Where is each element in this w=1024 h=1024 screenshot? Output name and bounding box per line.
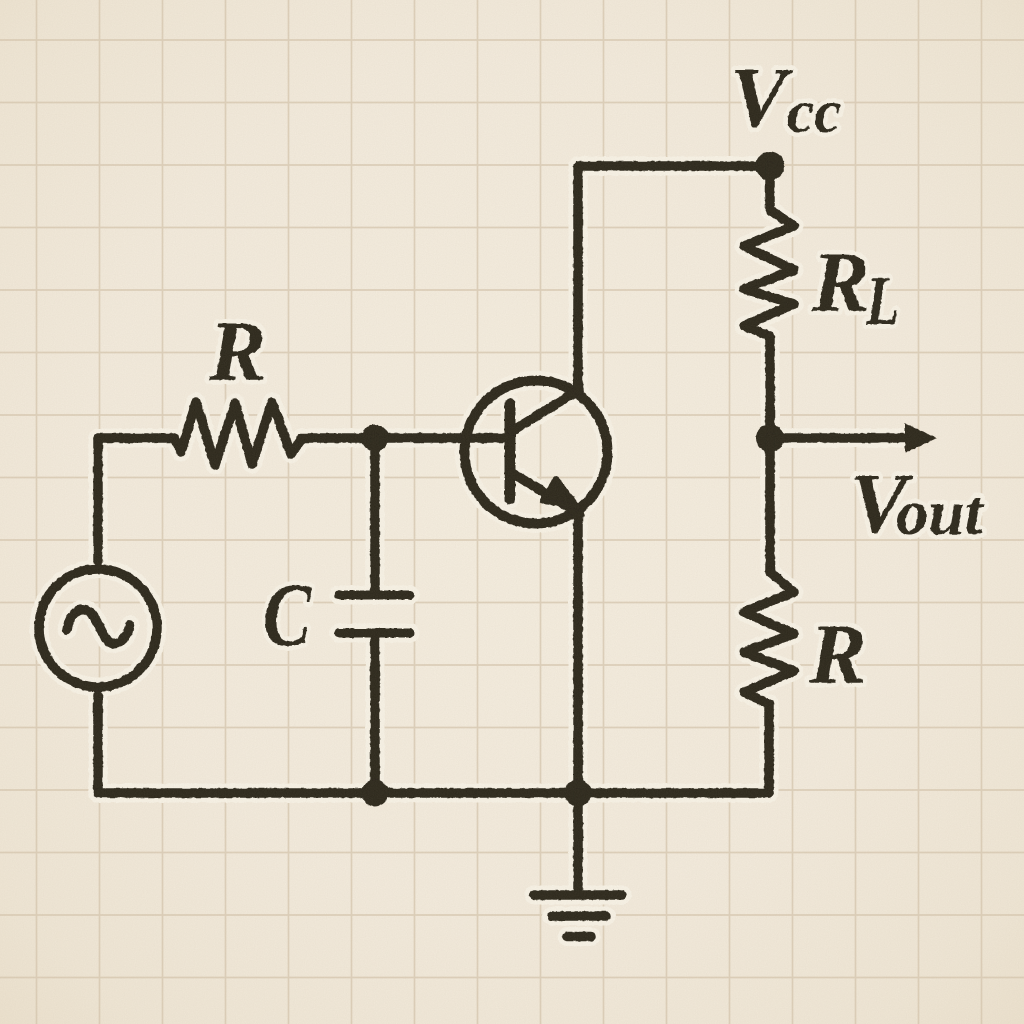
ground bar 3 [567,932,591,942]
output arrow shaft [770,433,910,443]
wire left vertical top [93,438,103,561]
transistor body circle [465,381,608,524]
ground bar 1 [534,890,622,900]
capacitor C [339,438,410,793]
node Vcc [756,152,785,181]
transistor base bar [505,404,516,499]
wire left vertical bottom [93,695,103,793]
capacitor plates [339,595,410,633]
node emitter/ground [565,780,592,807]
ink halo underlay (glow around strokes, decorative) [39,166,912,937]
node output [756,424,784,452]
resistor R2 [744,572,794,704]
node cap bottom [362,780,389,807]
output arrowhead [905,423,937,453]
node base/cap junction [362,425,389,452]
ground bar 2 [552,911,606,921]
transistor emitter stroke [512,473,580,514]
transistor emitter arrowhead [542,478,578,507]
wire R2 to bottom rail [764,704,774,793]
capacitor lead wires [370,438,380,793]
AC source V1 [39,569,157,687]
ground [534,793,622,937]
transistor Q1 (NPN) [465,381,608,524]
wire output node to R2 [765,438,775,572]
wire resistor to base [301,433,505,443]
resistor RL [744,210,794,336]
AC sine symbol [67,609,130,643]
wire Vcc node to RL [765,166,775,210]
wire RL to output node [765,336,775,438]
transistor collector stroke [512,390,579,431]
output arrow to Vout [770,423,937,453]
wire emitter down [573,515,583,793]
wire top-left horizontal [98,433,174,443]
ground stem wire [573,793,583,891]
wire collector up and Vcc rail [578,166,770,390]
wire bottom rail [98,788,769,798]
AC source body circle [39,569,157,687]
resistor R1 [174,402,301,465]
